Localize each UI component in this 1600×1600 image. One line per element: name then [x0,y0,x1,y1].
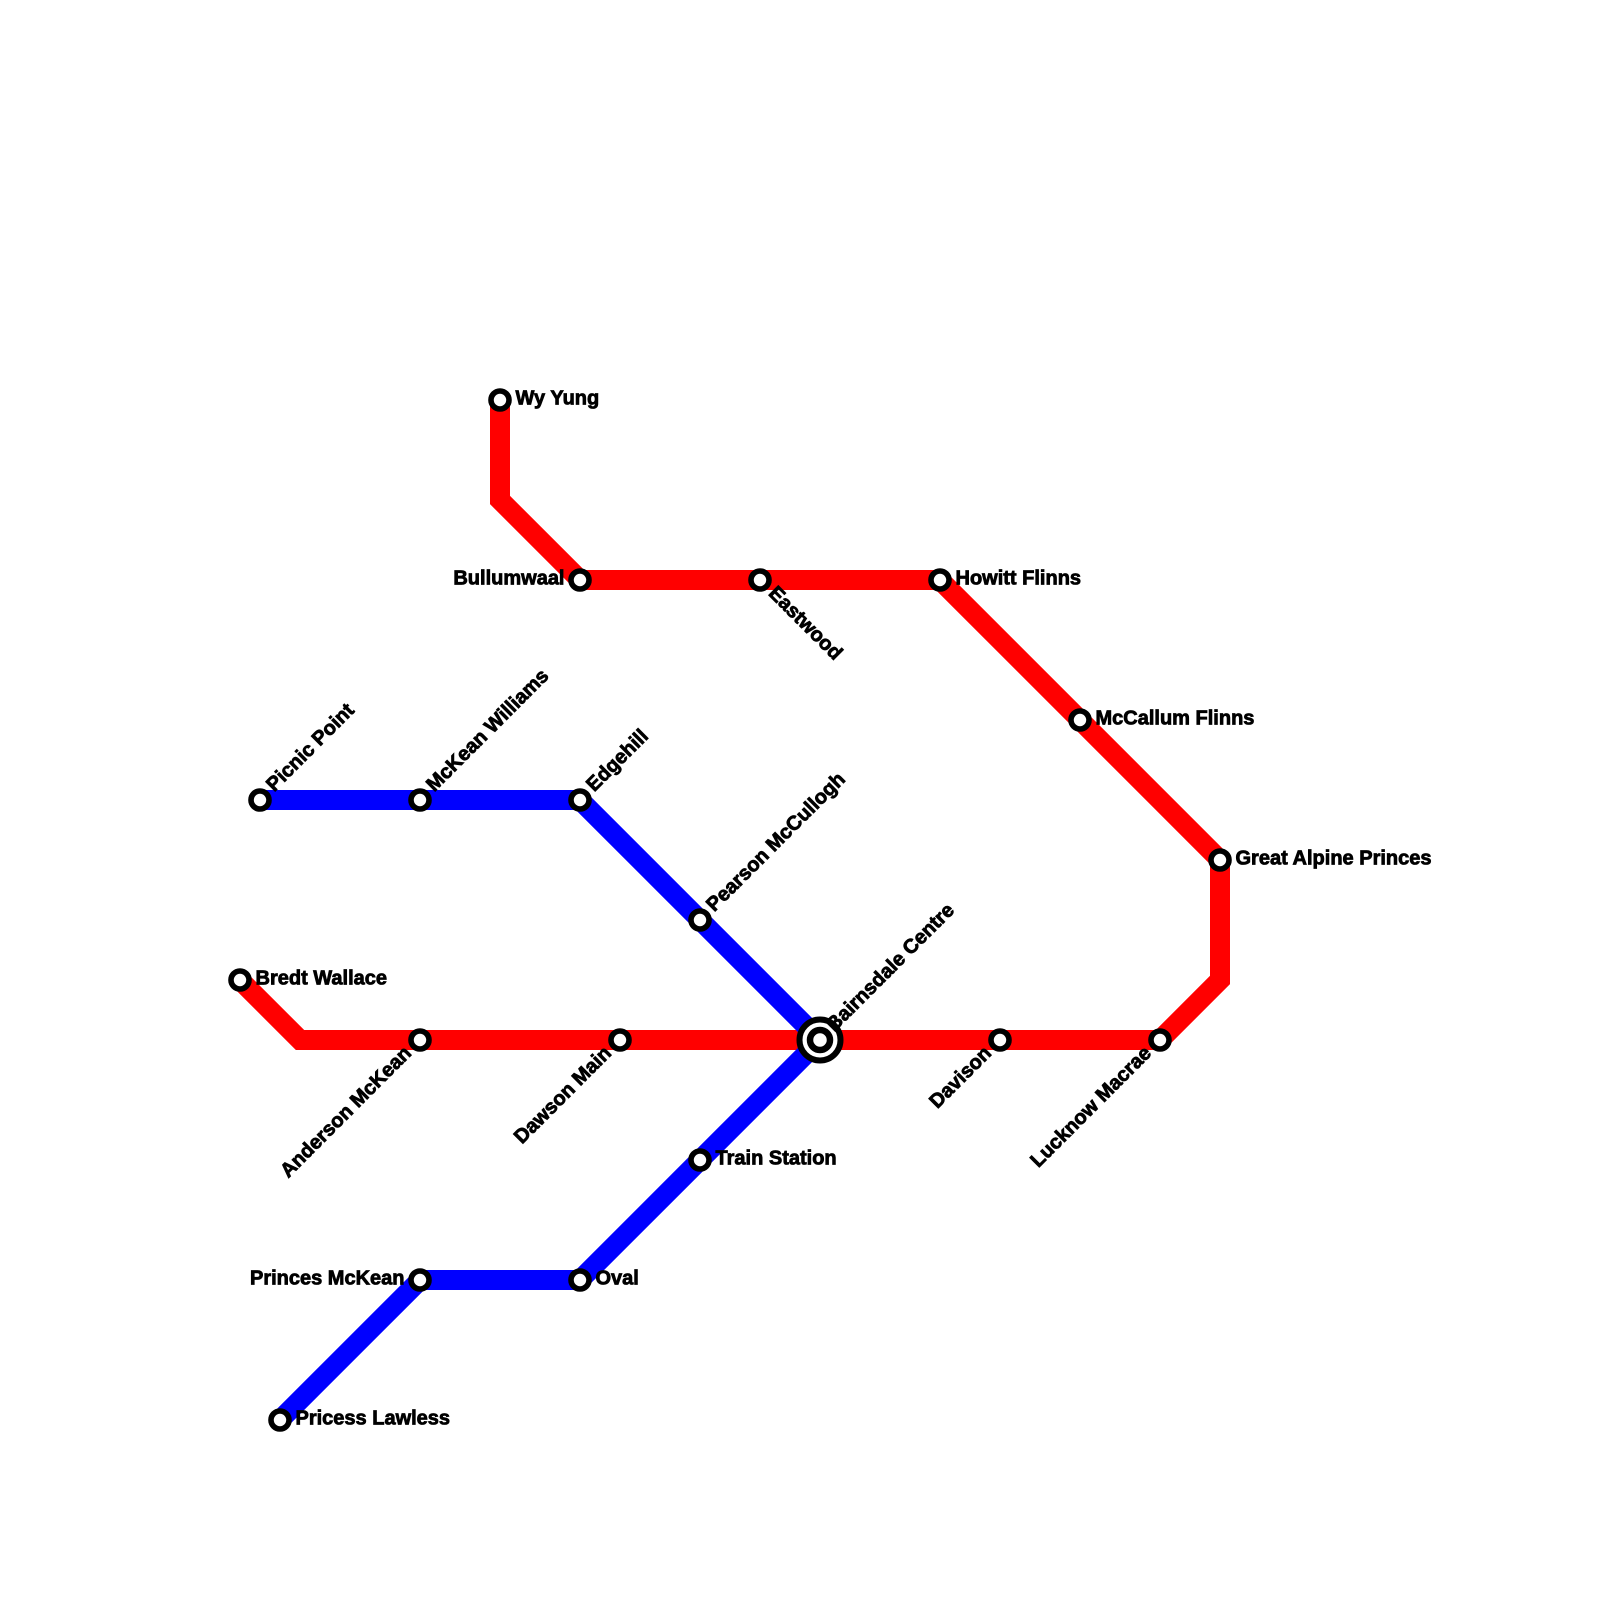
svg-text:Great Alpine Princes: Great Alpine Princes [1236,848,1432,870]
station McKean Williams [411,791,429,809]
station Bredt Wallace [231,971,249,989]
station Bullumwaal [571,571,589,589]
interchange Bairnsdale Centre [800,1020,841,1061]
station McCallum Flinns [1071,711,1089,729]
station Great Alpine Princes [1211,851,1229,869]
svg-text:Train Station: Train Station [716,1148,837,1170]
station Edgehill [571,791,589,809]
svg-text:Pricess Lawless: Pricess Lawless [296,1408,451,1430]
station Wy Yung [491,391,509,409]
svg-text:McCallum Flinns: McCallum Flinns [1096,708,1255,730]
station Davison [991,1031,1009,1049]
svg-text:Howitt Flinns: Howitt Flinns [956,568,1082,590]
station Howitt Flinns [931,571,949,589]
red line (Bredt Wallace - Wy Yung) [240,400,1220,1040]
station Train Station [691,1151,709,1169]
svg-text:Oval: Oval [596,1268,639,1290]
station Princes McKean [411,1271,429,1289]
station Lucknow Macrae [1151,1031,1169,1049]
svg-text:Wy Yung: Wy Yung [516,388,600,410]
svg-text:Bredt Wallace: Bredt Wallace [256,968,388,990]
station Oval [571,1271,589,1289]
station Picnic Point [251,791,269,809]
svg-text:Bullumwaal: Bullumwaal [453,568,564,590]
station Pearson McCullogh [691,911,709,929]
station Anderson McKean [411,1031,429,1049]
blue line (Picnic Point - Pricess Lawless) [260,800,820,1420]
station Pricess Lawless [271,1411,289,1429]
station Eastwood [751,571,769,589]
svg-text:Princes McKean: Princes McKean [250,1268,405,1290]
station Dawson Main [611,1031,629,1049]
